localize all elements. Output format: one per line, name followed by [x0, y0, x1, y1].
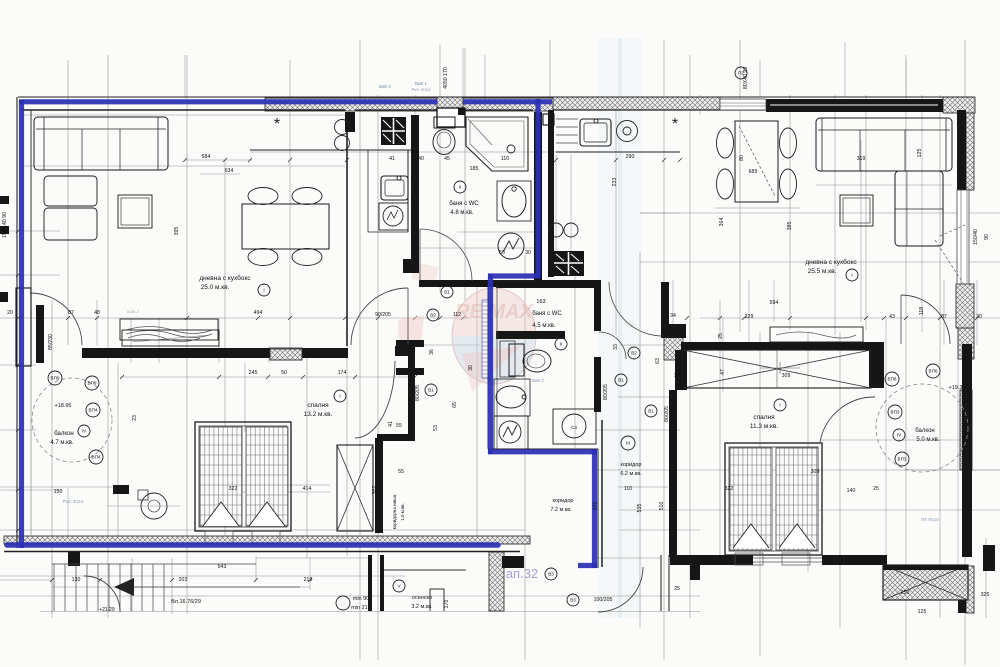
svg-text:4050 170: 4050 170: [443, 67, 449, 89]
svg-text:63: 63: [655, 358, 661, 364]
svg-text:I: I: [851, 273, 852, 278]
svg-text:6.2 м.кв.: 6.2 м.кв.: [620, 471, 642, 477]
svg-text:min 90: min 90: [353, 596, 370, 602]
svg-text:3.2 м.кв.: 3.2 м.кв.: [411, 604, 433, 610]
svg-text:80: 80: [739, 155, 745, 161]
svg-text:I: I: [339, 394, 340, 399]
svg-text:80X40 90: 80X40 90: [743, 67, 749, 89]
svg-text:II: II: [560, 342, 563, 347]
svg-text:85/230: 85/230: [48, 334, 54, 350]
svg-text:20: 20: [7, 310, 13, 316]
svg-text:ВиК 1: ВиК 1: [415, 81, 427, 86]
svg-text:ВП9: ВП9: [51, 376, 60, 381]
svg-text:302: 302: [372, 486, 378, 495]
svg-text:ап.32: ап.32: [506, 566, 538, 581]
svg-text:ВП3: ВП3: [898, 457, 907, 462]
svg-text:дневна с кухбокс: дневна с кухбокс: [199, 274, 251, 282]
svg-text:634: 634: [225, 168, 234, 174]
svg-text:150/140 90: 150/140 90: [2, 212, 8, 238]
svg-text:150: 150: [54, 489, 63, 495]
svg-text:43: 43: [889, 314, 895, 320]
svg-text:203: 203: [179, 577, 188, 583]
svg-text:80/205: 80/205: [603, 384, 609, 400]
svg-text:7.2 м.кв.: 7.2 м.кв.: [550, 507, 572, 513]
svg-text:41: 41: [388, 421, 394, 427]
svg-text:4.5 м.кв.: 4.5 м.кв.: [532, 323, 556, 329]
svg-text:+21.29: +21.29: [99, 607, 115, 613]
svg-text:414: 414: [303, 486, 312, 492]
svg-text:25: 25: [962, 170, 968, 176]
svg-text:535: 535: [637, 504, 643, 513]
svg-text:баня с WC: баня с WC: [449, 201, 479, 207]
svg-text:41: 41: [389, 156, 395, 162]
svg-text:коридор: коридор: [621, 462, 642, 468]
svg-text:385: 385: [787, 222, 793, 231]
svg-text:спалня: спалня: [307, 402, 329, 409]
svg-text:543: 543: [218, 564, 227, 570]
svg-text:309: 309: [782, 373, 791, 379]
svg-text:153: 153: [674, 373, 683, 379]
svg-text:25: 25: [873, 486, 879, 492]
svg-text:20: 20: [976, 314, 982, 320]
svg-text:329: 329: [745, 314, 754, 320]
svg-text:+18.95: +18.95: [55, 403, 72, 409]
svg-text:395: 395: [174, 227, 180, 236]
svg-text:I: I: [263, 288, 264, 293]
svg-text:ВП9: ВП9: [88, 381, 97, 386]
svg-text:170: 170: [444, 600, 450, 609]
svg-text:III: III: [626, 441, 630, 446]
svg-text:48: 48: [94, 310, 100, 316]
svg-text:55: 55: [398, 469, 404, 475]
svg-text:219: 219: [304, 577, 313, 583]
svg-text:65: 65: [452, 402, 458, 408]
svg-text:245: 245: [249, 370, 258, 376]
svg-text:309: 309: [811, 469, 820, 475]
svg-text:25: 25: [718, 333, 724, 339]
svg-text:коридорна ниша: коридорна ниша: [392, 494, 397, 529]
svg-text:110: 110: [501, 156, 509, 162]
svg-text:балкон: балкон: [915, 428, 934, 434]
svg-text:дневна с кухбокс: дневна с кухбокс: [805, 258, 857, 266]
svg-text:ВП6: ВП6: [888, 377, 897, 382]
svg-text:II: II: [459, 185, 462, 190]
svg-text:4.8 м.кв.: 4.8 м.кв.: [450, 210, 474, 216]
svg-text:В3: В3: [570, 598, 576, 603]
svg-text:баня с WC: баня с WC: [532, 311, 562, 317]
svg-text:25.5 м.кв.: 25.5 м.кв.: [808, 268, 837, 275]
svg-text:494: 494: [254, 310, 263, 316]
svg-text:53: 53: [433, 425, 439, 431]
svg-text:150/40: 150/40: [973, 229, 979, 245]
svg-text:584: 584: [202, 154, 211, 160]
svg-text:47: 47: [720, 369, 726, 375]
svg-text:ВП4: ВП4: [92, 455, 101, 460]
svg-text:*: *: [274, 116, 280, 133]
svg-text:290: 290: [626, 154, 635, 160]
svg-text:45: 45: [444, 156, 450, 162]
svg-text:594: 594: [770, 300, 779, 306]
svg-text:ВиК 2: ВиК 2: [379, 84, 391, 89]
svg-text:23: 23: [132, 415, 138, 421]
svg-text:11.3 м.кв.: 11.3 м.кв.: [750, 423, 779, 430]
svg-text:510: 510: [659, 502, 665, 511]
svg-text:коридор: коридор: [553, 498, 574, 504]
svg-text:I: I: [779, 403, 780, 408]
svg-text:Вл.16.76/29: Вл.16.76/29: [171, 599, 201, 605]
svg-text:185: 185: [470, 166, 479, 172]
svg-text:118: 118: [919, 307, 925, 315]
svg-text:балкон: балкон: [54, 431, 73, 437]
svg-text:112: 112: [453, 312, 461, 318]
svg-text:C3: C3: [571, 425, 577, 430]
svg-text:140: 140: [847, 488, 856, 494]
svg-text:25.0 м.кв.: 25.0 м.кв.: [201, 284, 230, 291]
svg-text:5.0 м.кв.: 5.0 м.кв.: [916, 437, 940, 443]
svg-text:322: 322: [229, 486, 238, 492]
svg-text:БОК 2: БОК 2: [127, 309, 139, 314]
svg-text:RE/MAX: RE/MAX: [455, 301, 534, 323]
svg-text:25: 25: [117, 488, 123, 494]
svg-text:110: 110: [624, 486, 632, 492]
svg-text:30: 30: [525, 250, 531, 256]
svg-text:ВП3: ВП3: [891, 410, 900, 415]
svg-text:233: 233: [612, 178, 618, 187]
svg-text:40: 40: [418, 156, 424, 162]
svg-text:В1: В1: [444, 290, 450, 295]
svg-text:125: 125: [918, 609, 927, 615]
svg-text:50: 50: [281, 370, 287, 376]
svg-text:50: 50: [499, 250, 505, 256]
svg-text:87: 87: [68, 310, 74, 316]
svg-text:PVC Ф110: PVC Ф110: [412, 87, 432, 92]
svg-text:80/205: 80/205: [664, 406, 670, 422]
svg-text:min 210: min 210: [351, 605, 371, 611]
svg-text:В1: В1: [618, 378, 624, 383]
svg-text:ВП4: ВП4: [89, 408, 98, 413]
svg-text:125: 125: [917, 149, 923, 158]
svg-text:100/205: 100/205: [594, 597, 613, 603]
svg-text:+19.35: +19.35: [949, 385, 966, 391]
svg-text:ВП6: ВП6: [929, 369, 938, 374]
svg-text:PVC Ф110: PVC Ф110: [62, 499, 84, 504]
svg-text:689: 689: [749, 169, 758, 175]
svg-text:55: 55: [396, 423, 402, 429]
svg-text:174: 174: [338, 370, 347, 376]
svg-text:250: 250: [901, 590, 910, 596]
svg-text:90/205: 90/205: [375, 312, 391, 318]
svg-text:319: 319: [857, 156, 866, 162]
svg-text:спалня: спалня: [753, 414, 775, 421]
svg-text:34: 34: [670, 313, 676, 319]
svg-text:ПК Ф110: ПК Ф110: [921, 517, 939, 522]
svg-text:90: 90: [984, 234, 990, 240]
svg-text:272: 272: [593, 502, 599, 511]
svg-text:322: 322: [725, 486, 734, 492]
svg-text:В3: В3: [548, 572, 554, 577]
svg-text:325: 325: [981, 592, 990, 598]
svg-text:*: *: [672, 116, 678, 133]
svg-text:87: 87: [941, 314, 947, 320]
svg-text:В1: В1: [428, 388, 434, 393]
svg-text:В2: В2: [631, 351, 637, 356]
svg-text:4.7 м.кв.: 4.7 м.кв.: [50, 440, 74, 446]
svg-text:осенско: осенско: [412, 595, 432, 601]
svg-text:13.2 м.кв.: 13.2 м.кв.: [304, 411, 333, 418]
svg-text:364: 364: [719, 218, 725, 227]
svg-text:ВиК 2: ВиК 2: [532, 378, 544, 383]
svg-text:1.0 м.кв.: 1.0 м.кв.: [400, 503, 405, 520]
svg-text:В2: В2: [430, 313, 436, 318]
svg-text:80/205: 80/205: [415, 385, 421, 401]
svg-text:36: 36: [429, 349, 435, 355]
svg-text:30: 30: [468, 365, 474, 371]
svg-text:130: 130: [72, 577, 81, 583]
svg-text:25: 25: [674, 586, 680, 592]
svg-text:В1: В1: [648, 409, 654, 414]
svg-text:163: 163: [536, 299, 545, 305]
svg-text:33: 33: [613, 344, 619, 350]
